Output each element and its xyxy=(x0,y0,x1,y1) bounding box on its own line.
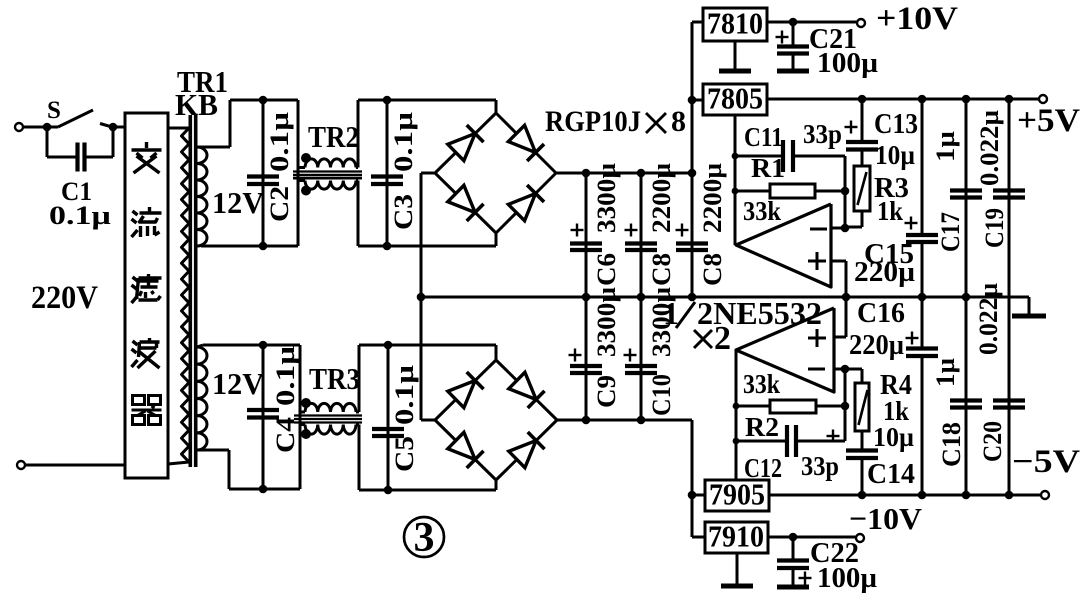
label C22 xyxy=(810,537,859,569)
label +5V xyxy=(1017,103,1080,139)
svg-text:3300µ: 3300µ xyxy=(592,287,621,357)
node C4 top xyxy=(259,341,268,350)
label +10V xyxy=(876,1,958,37)
svg-text:C2: C2 xyxy=(265,186,294,222)
label C1 xyxy=(61,177,92,206)
node feedback C12 xyxy=(733,438,740,445)
wire TR3 cell left xyxy=(299,345,302,489)
svg-text:0.022µ: 0.022µ xyxy=(975,110,1004,186)
label C1 value xyxy=(49,201,111,230)
choke TR2 phase dot bottom xyxy=(301,186,311,196)
choke TR3 phase dot bottom xyxy=(301,429,311,439)
label C22 plus xyxy=(799,572,812,585)
label C6 value xyxy=(592,163,621,233)
label R4 value xyxy=(883,396,909,426)
node feedback R2 xyxy=(733,403,740,410)
label 220V xyxy=(31,280,98,316)
svg-text:C20: C20 xyxy=(978,421,1007,462)
wire mid rail xyxy=(421,296,1029,299)
capacitor C1 xyxy=(47,127,113,172)
svg-text:220µ: 220µ xyxy=(849,330,904,361)
svg-text:12V: 12V xyxy=(212,185,265,220)
label x2 xyxy=(694,320,731,357)
capacitor C12 xyxy=(736,425,845,457)
label C22 value xyxy=(817,563,877,594)
op-amp U2 xyxy=(736,308,834,392)
wire bottom rail C3 xyxy=(358,245,496,248)
svg-text:C18: C18 xyxy=(937,422,966,467)
node R2 right xyxy=(841,402,850,411)
resistor R3 xyxy=(854,166,870,211)
svg-text:−10V: −10V xyxy=(849,501,923,536)
node C17 bottom xyxy=(962,293,971,302)
label R1 xyxy=(751,153,785,183)
label C10 plus xyxy=(624,349,637,362)
wire bridge2 frame xyxy=(435,360,557,480)
svg-text:7810: 7810 xyxy=(707,6,763,41)
label C21 plus xyxy=(776,31,789,44)
capacitor C15 xyxy=(906,99,938,297)
switch S xyxy=(47,97,112,127)
wire bridge common vertical xyxy=(420,173,423,420)
capacitor C16 xyxy=(906,297,938,495)
transformer TR1 core xyxy=(190,115,195,467)
svg-text:8: 8 xyxy=(671,105,686,138)
wire input bottom xyxy=(25,464,125,467)
node C8a bottom xyxy=(637,293,646,302)
svg-text:33p: 33p xyxy=(801,451,839,481)
node feedback R1 xyxy=(732,188,739,195)
label R2 xyxy=(745,412,779,442)
node C8b bottom xyxy=(688,293,697,302)
wire 7910 input xyxy=(692,536,705,539)
svg-text:33p: 33p xyxy=(803,119,842,149)
svg-text:C16: C16 xyxy=(857,298,905,329)
wire bridge2 bottom stub xyxy=(495,480,498,490)
node feedback C11 xyxy=(732,153,739,160)
U1 minus marker xyxy=(810,228,827,231)
wire 7810 input xyxy=(692,21,703,24)
svg-text:0.1µ: 0.1µ xyxy=(265,112,294,172)
label C19 xyxy=(980,208,1009,248)
svg-text:−5V: −5V xyxy=(1012,444,1080,480)
node mid rail start xyxy=(417,293,426,302)
svg-text:+5V: +5V xyxy=(1017,103,1080,139)
label C9 plus xyxy=(569,349,582,362)
node 7805 input xyxy=(688,96,697,105)
svg-text:0.1µ: 0.1µ xyxy=(389,112,418,172)
node C3 bottom xyxy=(383,242,392,251)
svg-text:33k: 33k xyxy=(743,196,781,226)
label C21 xyxy=(809,23,857,55)
U1 plus marker xyxy=(808,252,826,270)
wire R3 bottom xyxy=(845,211,862,227)
capacitor C5 xyxy=(372,345,404,490)
label TR1 xyxy=(177,64,228,99)
node C6 bottom xyxy=(582,293,591,302)
ground 7810 xyxy=(719,41,751,71)
label C12 xyxy=(744,453,782,483)
svg-text:10µ: 10µ xyxy=(875,140,915,170)
choke TR3 phase dot top xyxy=(301,398,311,408)
U2 minus marker xyxy=(808,368,825,371)
wire TR3 right bottom xyxy=(356,425,359,491)
label R3 xyxy=(874,173,909,204)
wire U2 feedback vertical xyxy=(844,369,847,441)
label C8b value xyxy=(698,163,727,233)
label C16 plus xyxy=(906,332,919,345)
wire top rail upper-left xyxy=(230,99,298,102)
capacitor C9 xyxy=(570,297,602,420)
choke TR2 core xyxy=(293,172,362,179)
label C8b xyxy=(698,253,727,286)
svg-text:220V: 220V xyxy=(31,280,98,316)
svg-text:C6: C6 xyxy=(592,253,621,286)
node C8a top xyxy=(637,169,646,178)
wire TR2 right bottom xyxy=(356,181,358,247)
wire TR2 left bottom xyxy=(298,179,305,182)
wire TR1 sec bot lower xyxy=(197,450,300,489)
svg-text:1µ: 1µ xyxy=(931,131,960,162)
capacitor C20 xyxy=(993,297,1025,495)
wire TR1 sec top to rail xyxy=(197,100,230,147)
transformer TR1 secondary bottom xyxy=(197,347,207,450)
svg-text:1µ: 1µ xyxy=(931,358,960,387)
svg-text:12V: 12V xyxy=(212,366,265,401)
label R3 value xyxy=(877,196,903,226)
label C13 value xyxy=(875,140,915,170)
node C15 top xyxy=(918,95,927,104)
choke TR3 core xyxy=(294,416,362,423)
ground 7910 xyxy=(721,553,753,586)
label C13 plus xyxy=(845,121,858,134)
wire U2 noninv input xyxy=(834,297,846,337)
node C8b top xyxy=(688,169,697,178)
label C8a xyxy=(647,253,676,286)
label C15 xyxy=(864,239,914,270)
node A junction xyxy=(43,123,52,132)
label C3 xyxy=(389,194,418,230)
node C9 bottom xyxy=(582,416,591,425)
svg-text:C19: C19 xyxy=(980,208,1009,248)
svg-text:7805: 7805 xyxy=(707,81,763,116)
transformer TR1 secondary top xyxy=(197,147,207,246)
label C15 value xyxy=(854,257,915,288)
wire 7805 output xyxy=(767,98,1043,101)
filter text liu xyxy=(132,207,162,237)
capacitor C14 xyxy=(846,431,878,495)
label RGP10J x8 xyxy=(545,105,686,138)
capacitor C13 xyxy=(846,99,878,166)
svg-text:10µ: 10µ xyxy=(873,422,914,452)
label C20 xyxy=(978,421,1007,462)
wire bridge1 frame xyxy=(435,113,556,233)
svg-text:100µ: 100µ xyxy=(817,563,877,594)
node C13 top xyxy=(858,95,867,104)
node C4 bottom xyxy=(259,485,268,494)
svg-text:S: S xyxy=(47,97,61,124)
filter text jiao xyxy=(132,142,162,173)
node B junction xyxy=(109,123,118,132)
label C9 xyxy=(592,375,621,408)
regulator 7810 xyxy=(703,6,767,42)
svg-text:C8: C8 xyxy=(647,253,676,286)
terminal +5V xyxy=(1039,95,1047,103)
svg-text:C17: C17 xyxy=(936,212,965,252)
label C17 value xyxy=(931,131,960,162)
wire TR3 right top xyxy=(356,345,359,412)
label C18 xyxy=(937,422,966,467)
label TR2 xyxy=(308,119,359,154)
node C22 tap xyxy=(789,533,798,542)
wire TR3 left bottom xyxy=(300,423,305,426)
svg-text:C13: C13 xyxy=(874,109,918,140)
node C3 top xyxy=(383,96,392,105)
svg-text:0.1µ: 0.1µ xyxy=(49,201,111,230)
svg-text:RGP10J: RGP10J xyxy=(545,105,641,138)
label -10V xyxy=(849,501,923,536)
label C19 value xyxy=(975,110,1004,186)
label C21 value xyxy=(817,48,878,79)
label C12 value xyxy=(801,451,839,481)
svg-text:R2: R2 xyxy=(745,412,779,442)
regulator 7905 xyxy=(705,477,769,512)
svg-text:C11: C11 xyxy=(744,122,783,152)
wire TR3 left top xyxy=(300,411,305,414)
wire 7805 input xyxy=(692,99,703,102)
wire U2 inv input xyxy=(834,368,845,371)
node C5 bottom xyxy=(384,486,393,495)
capacitor C11 xyxy=(735,140,845,172)
label C16 value xyxy=(849,330,904,361)
svg-text:TR2: TR2 xyxy=(308,119,359,154)
wire 7910 output xyxy=(768,536,856,539)
wire TR2 right top xyxy=(356,100,358,168)
label 1/2NE5532 xyxy=(663,295,822,331)
label C3 value xyxy=(389,112,418,172)
transformer TR1 primary xyxy=(182,128,190,462)
capacitor C3 xyxy=(371,100,403,246)
wire top rail C5 xyxy=(359,344,496,347)
svg-text:0.022µ: 0.022µ xyxy=(974,283,1003,355)
svg-text:C10: C10 xyxy=(647,374,676,416)
choke TR2 phase dot top xyxy=(301,153,311,163)
terminal input top xyxy=(15,123,23,131)
label C11 xyxy=(744,122,783,152)
wire U1 noninv input xyxy=(831,261,846,297)
wire bottom rail C5 xyxy=(359,489,496,492)
terminal input bottom xyxy=(17,461,25,469)
wire TR2 left top xyxy=(298,100,305,246)
label 12V lower xyxy=(212,366,265,401)
label C4 xyxy=(271,417,300,453)
wire 7805 ground to feedback xyxy=(734,115,737,245)
wire TR1 sec bot to rail xyxy=(197,345,300,347)
node 7905 input xyxy=(688,491,697,500)
terminal -5V xyxy=(1041,491,1049,499)
label C20 value xyxy=(974,283,1003,355)
capacitor C19 xyxy=(993,99,1025,297)
svg-text:3: 3 xyxy=(414,515,435,561)
node C5 top xyxy=(384,341,393,350)
choke TR2 top winding xyxy=(305,159,356,168)
capacitor C22 xyxy=(777,537,809,587)
node U2 inv input xyxy=(841,365,850,374)
capacitor C17 xyxy=(950,99,982,297)
label C14 value xyxy=(873,422,914,452)
wire bridge1 top stub xyxy=(495,100,498,113)
node U1 noninv mid xyxy=(842,293,851,302)
wire U1 inv input xyxy=(831,227,845,230)
svg-text:C3: C3 xyxy=(389,194,418,230)
svg-text:R1: R1 xyxy=(751,153,785,183)
node U1 inv input xyxy=(841,224,850,233)
choke TR2 bottom winding xyxy=(305,181,356,190)
capacitor C8b xyxy=(676,22,708,297)
capacitor C8a xyxy=(625,173,657,297)
label C8a value xyxy=(647,163,676,233)
diode D4 xyxy=(508,185,544,221)
svg-text:TR3: TR3 xyxy=(309,361,360,396)
diode D3 xyxy=(448,185,484,221)
label C14 xyxy=(867,459,915,490)
ground mid rail right xyxy=(1012,297,1046,316)
label C12 plus xyxy=(827,430,840,443)
wire top rail C3 xyxy=(358,99,496,102)
node C17 top xyxy=(962,95,971,104)
wire input top xyxy=(23,126,58,129)
diode D6 xyxy=(509,372,545,408)
label C18 value xyxy=(931,358,960,387)
wire 7905 ground to feedback xyxy=(735,350,738,480)
resistor R4 xyxy=(845,369,869,431)
label 12V upper xyxy=(212,185,265,220)
svg-text:+10V: +10V xyxy=(876,1,958,37)
terminal -10V xyxy=(856,534,864,542)
svg-text:C14: C14 xyxy=(867,459,915,490)
diode D2 xyxy=(508,125,544,161)
label C6 xyxy=(592,253,621,286)
node C10 bottom xyxy=(637,416,646,425)
label C10 value xyxy=(647,287,676,357)
label R2 value xyxy=(743,369,780,399)
node C18 bottom xyxy=(962,491,971,500)
diode D1 xyxy=(448,125,484,161)
node C6 top xyxy=(582,169,591,178)
filter text lv xyxy=(132,274,162,303)
svg-text:C5: C5 xyxy=(390,436,419,472)
label C8a plus xyxy=(625,224,638,237)
U2 plus marker xyxy=(808,329,826,347)
wire TR2 cell left xyxy=(297,100,300,246)
label C15 plus xyxy=(905,217,918,230)
node C15 bottom xyxy=(918,293,927,302)
wire negative input tee xyxy=(692,494,705,497)
label C10 xyxy=(647,374,676,416)
label C4 value xyxy=(271,346,300,406)
wire bridge2 left stub xyxy=(421,419,435,422)
label C11 value xyxy=(803,119,842,149)
node C21 tap xyxy=(789,18,798,27)
label C6 plus xyxy=(571,224,584,237)
node C14 bottom xyxy=(858,491,867,500)
wire filter to TR1 bottom xyxy=(168,462,189,464)
label KB xyxy=(175,87,218,122)
resistor R2 xyxy=(736,400,845,413)
svg-text:C8: C8 xyxy=(698,253,727,286)
svg-text:0.1µ: 0.1µ xyxy=(271,346,300,406)
capacitor C18 xyxy=(950,297,982,495)
wire bridge1 bottom stub xyxy=(495,233,498,246)
label C17 xyxy=(936,212,965,252)
op-amp U1 xyxy=(736,204,831,287)
label C13 xyxy=(874,109,918,140)
regulator 7910 xyxy=(705,519,768,554)
wire 7810 output xyxy=(767,21,861,24)
svg-text:2200µ: 2200µ xyxy=(647,163,676,233)
filter text bo xyxy=(132,338,160,368)
label -5V xyxy=(1012,444,1080,480)
wire filter to TR1 top xyxy=(168,127,189,130)
label C2 xyxy=(265,186,294,222)
terminal +10V xyxy=(857,19,865,27)
label TR3 xyxy=(309,361,360,396)
AC filter box xyxy=(125,113,168,478)
wire positive rail xyxy=(556,172,692,175)
capacitor C6 xyxy=(570,173,602,297)
choke TR3 top winding xyxy=(305,403,356,412)
wire switch to filter xyxy=(113,126,125,129)
svg-text:2200µ: 2200µ xyxy=(698,163,727,233)
svg-text:220µ: 220µ xyxy=(854,257,915,288)
label C2 value xyxy=(265,112,294,172)
node C2 bottom xyxy=(259,242,268,251)
wire bridge1 left stub xyxy=(421,172,435,175)
node C19 top xyxy=(1005,95,1014,104)
diode D5 xyxy=(448,372,484,408)
capacitor C21 xyxy=(777,22,809,71)
svg-text:7910: 7910 xyxy=(708,519,764,554)
svg-text:100µ: 100µ xyxy=(817,48,878,79)
node C20 bottom xyxy=(1005,491,1014,500)
diode D7 xyxy=(448,432,484,468)
svg-text:2: 2 xyxy=(714,320,731,357)
filter text qi xyxy=(132,396,162,425)
svg-text:33k: 33k xyxy=(743,369,780,399)
label R4 xyxy=(880,370,912,401)
capacitor C10 xyxy=(625,297,657,420)
wire bridge2 top stub xyxy=(495,345,498,360)
label R1 value xyxy=(743,196,781,226)
node C16 bottom xyxy=(918,491,927,500)
svg-text:3300µ: 3300µ xyxy=(592,163,621,233)
svg-text:C9: C9 xyxy=(592,375,621,408)
svg-text:C12: C12 xyxy=(744,453,782,483)
label C5 value xyxy=(390,365,419,425)
node R1 right xyxy=(841,187,850,196)
label C8b plus xyxy=(676,224,689,237)
wire negative rail xyxy=(557,420,692,537)
figure number 3 xyxy=(404,515,444,561)
capacitor C4 xyxy=(247,345,279,489)
diode D8 xyxy=(509,432,545,468)
label C16 xyxy=(857,298,905,329)
choke TR3 bottom winding xyxy=(305,425,356,435)
wire 7905 output xyxy=(769,494,1045,497)
capacitor C2 xyxy=(247,100,279,246)
regulator 7805 xyxy=(703,81,767,116)
svg-text:1k: 1k xyxy=(877,196,903,226)
